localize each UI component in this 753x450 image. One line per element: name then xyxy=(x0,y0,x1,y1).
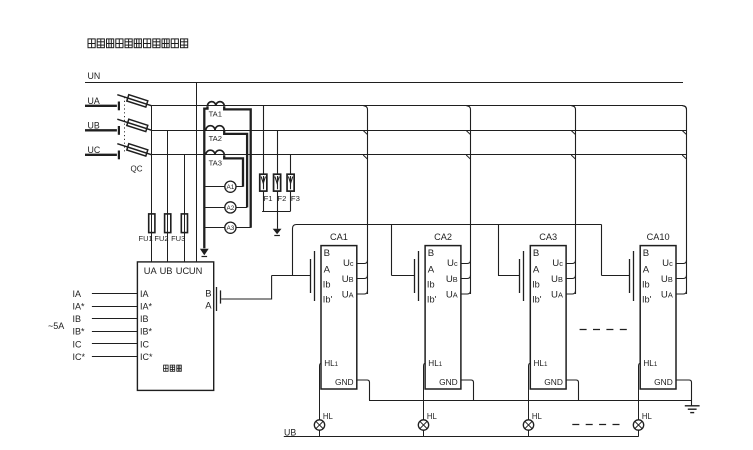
wire A2 left stub xyxy=(205,207,224,209)
lamp HL (CA3) xyxy=(523,420,533,430)
wire voltage drop vertical CA1 xyxy=(364,106,368,294)
wire current input IA* xyxy=(92,306,137,308)
wire CA10 B/A feed xyxy=(602,275,630,277)
svg-text:GND: GND xyxy=(654,377,673,387)
switch QC contact UB xyxy=(118,126,120,135)
wire TA2 secondary right xyxy=(224,131,247,208)
svg-text:UC: UC xyxy=(88,145,101,155)
svg-text:IC: IC xyxy=(140,339,150,349)
arrester F1 xyxy=(260,174,267,191)
svg-text:HL1: HL1 xyxy=(428,359,442,368)
ammeter A2 xyxy=(225,202,236,213)
svg-text:UB: UB xyxy=(446,274,458,285)
svg-text:Ib': Ib' xyxy=(323,295,333,305)
wire UA feed stub xyxy=(85,105,117,107)
junction tick UB x575 xyxy=(571,131,576,135)
svg-text:A: A xyxy=(533,264,540,275)
wire F1 bottom drop xyxy=(263,191,265,211)
junction tick UB x367 xyxy=(363,131,368,135)
svg-text:HL1: HL1 xyxy=(534,359,548,368)
svg-text:Ib': Ib' xyxy=(642,295,652,305)
wire CA10 UB hook xyxy=(676,275,687,278)
wire UA end fillet to right vertical xyxy=(683,106,687,110)
wire B/A daisy bus xyxy=(293,225,602,276)
junction tick UC x575 xyxy=(571,155,576,159)
svg-text:UA: UA xyxy=(88,96,100,106)
connector CA1 plug bars xyxy=(310,259,312,293)
svg-text:IB*: IB* xyxy=(140,327,153,337)
lamp HL (CA10) xyxy=(633,420,643,430)
wire TA1 secondary right xyxy=(224,106,251,228)
wire lamp to UB line (CA3) xyxy=(528,430,530,437)
CT TA2 winding humps xyxy=(206,126,224,131)
svg-text:A1: A1 xyxy=(226,184,234,191)
connector CA3 plug bars xyxy=(519,259,521,293)
svg-text:HL1: HL1 xyxy=(643,359,657,368)
module CA1 box xyxy=(321,246,357,389)
wire voltage drop vertical CA10 xyxy=(683,106,687,294)
svg-text:A: A xyxy=(643,264,650,275)
wire CA1 HL1 drop xyxy=(320,364,322,420)
svg-text:FU3: FU3 xyxy=(171,234,185,243)
svg-text:UA: UA xyxy=(661,289,673,300)
wire CA1 GND drop xyxy=(357,380,370,400)
svg-text:IB*: IB* xyxy=(73,327,86,337)
wire lamp to UB line (CA10) xyxy=(638,430,640,437)
svg-text:TA3: TA3 xyxy=(209,158,222,167)
module CA3 box xyxy=(530,246,566,389)
svg-text:FU2: FU2 xyxy=(154,234,168,243)
wire UB line xyxy=(152,130,687,132)
wire UB lamp line xyxy=(284,436,639,438)
svg-text:IA*: IA* xyxy=(73,302,86,312)
svg-text:B: B xyxy=(428,248,434,259)
svg-text:IA: IA xyxy=(140,289,149,299)
svg-text:IC: IC xyxy=(73,339,83,349)
svg-text:QC: QC xyxy=(131,165,143,174)
fuse body on QC blade UB xyxy=(127,119,148,131)
wire CA2 HL1 drop xyxy=(424,364,426,420)
arrow TA common to UN terminal xyxy=(200,249,209,256)
svg-text:UN: UN xyxy=(88,71,101,81)
wire controller B/A to bus xyxy=(221,276,271,300)
svg-text:GND: GND xyxy=(544,377,563,387)
wire lamp to UB line (CA2) xyxy=(423,430,425,437)
wire F3 drop from phase xyxy=(290,155,292,174)
wire current input IB xyxy=(92,318,137,320)
svg-text:TA1: TA1 xyxy=(209,109,222,118)
svg-text:UN: UN xyxy=(189,266,202,276)
switch QC contact UA xyxy=(118,102,120,111)
wire CA3 B/A feed xyxy=(498,275,520,277)
svg-text:HL: HL xyxy=(323,412,334,421)
fuse FU3 xyxy=(181,214,187,233)
arrow F common to neutral xyxy=(273,229,282,235)
connector controller-side plug bars xyxy=(216,287,218,311)
wire CA3 Uc hook xyxy=(566,260,575,263)
svg-text:HL1: HL1 xyxy=(324,359,338,368)
svg-text:Uc: Uc xyxy=(662,258,673,269)
svg-text:A: A xyxy=(205,300,212,311)
svg-text:CA3: CA3 xyxy=(539,232,557,242)
ammeter A3 xyxy=(225,222,236,233)
wire F3 bottom drop xyxy=(290,191,292,211)
svg-text:UB: UB xyxy=(661,274,673,285)
svg-text:B: B xyxy=(533,248,539,259)
svg-text:CA10: CA10 xyxy=(647,232,670,242)
continuation dashes between CA3 and CA10 xyxy=(580,329,627,331)
wire CA1 UB hook xyxy=(357,275,368,278)
arrester F2 xyxy=(274,174,281,191)
svg-text:CA1: CA1 xyxy=(330,232,348,242)
switch QC contact UC xyxy=(118,151,120,160)
wire A1 left stub xyxy=(205,186,224,188)
wire CA1 B/A feed xyxy=(272,275,311,277)
junction tick UC x686 xyxy=(682,155,687,159)
wire bus drop CA2 xyxy=(391,225,393,276)
connector CA2 plug bars xyxy=(414,259,416,293)
svg-text:IA*: IA* xyxy=(140,302,153,312)
svg-text:A3: A3 xyxy=(226,225,234,232)
svg-text:CA2: CA2 xyxy=(434,232,452,242)
svg-text:Uc: Uc xyxy=(447,258,458,269)
lamp HL (CA1) xyxy=(314,420,324,430)
svg-text:UB: UB xyxy=(160,266,173,276)
wire A3 right stub xyxy=(236,227,251,229)
svg-text:A2: A2 xyxy=(226,205,234,212)
svg-text:F3: F3 xyxy=(291,194,300,203)
CT TA3 winding humps xyxy=(206,150,224,155)
wire UC line xyxy=(152,154,687,156)
svg-text:F1: F1 xyxy=(264,194,273,203)
svg-text:F2: F2 xyxy=(277,194,286,203)
switch QC blade UB xyxy=(117,119,152,130)
svg-text:IB: IB xyxy=(73,314,82,324)
wire current input IB* xyxy=(92,331,137,333)
svg-text:Uc: Uc xyxy=(343,258,354,269)
svg-text:FU1: FU1 xyxy=(139,234,153,243)
svg-text:UB: UB xyxy=(342,274,354,285)
svg-text:TA2: TA2 xyxy=(209,134,222,143)
svg-text:GND: GND xyxy=(439,377,458,387)
wire UB feed stub xyxy=(85,129,117,131)
svg-text:UA: UA xyxy=(446,289,458,300)
wire bus drop CA10 xyxy=(601,225,603,276)
wire UN drop to controller xyxy=(196,82,198,262)
svg-text:~5A: ~5A xyxy=(48,321,64,331)
svg-text:A: A xyxy=(428,264,435,275)
title 三相补偿应用电气接线图 xyxy=(88,39,95,48)
continuation dashes between lamps xyxy=(572,424,620,426)
wire ground stem xyxy=(691,400,693,405)
svg-text:A: A xyxy=(324,264,331,275)
svg-text:UB: UB xyxy=(551,274,563,285)
fuse FU1 xyxy=(149,214,155,233)
svg-text:HL: HL xyxy=(427,412,438,421)
svg-text:HL: HL xyxy=(532,412,543,421)
arrester F3 xyxy=(287,174,294,191)
connector CA10 plug bars xyxy=(629,259,631,293)
svg-text:IC*: IC* xyxy=(140,352,153,362)
junction tick UC x367 xyxy=(363,155,368,159)
wire current input IA xyxy=(92,293,137,295)
svg-text:GND: GND xyxy=(335,377,354,387)
wire F2 drop from phase xyxy=(277,130,279,174)
controller box 控制器 xyxy=(137,262,213,391)
wire CA3 UB hook xyxy=(566,275,575,278)
wire FU3 drop from phase xyxy=(184,155,186,262)
wire CA10 UA hook xyxy=(676,291,687,294)
wire F1 drop from phase xyxy=(263,106,265,174)
svg-text:Ib: Ib xyxy=(323,280,331,290)
switch QC blade UA xyxy=(117,95,152,106)
svg-text:IC*: IC* xyxy=(73,352,86,362)
wire GND bus xyxy=(369,400,691,402)
switch QC blade UC xyxy=(117,144,152,155)
wire CA1 Uc hook xyxy=(357,260,368,263)
wire CA2 UB hook xyxy=(461,275,471,278)
svg-text:Ib': Ib' xyxy=(532,295,542,305)
wire F common bar xyxy=(262,211,291,213)
svg-text:IB: IB xyxy=(140,314,149,324)
wire current input IC* xyxy=(92,356,137,358)
svg-text:Ib: Ib xyxy=(642,280,650,290)
wire FU2 drop from phase xyxy=(167,130,169,262)
junction tick UB x686 xyxy=(682,131,687,135)
wire A2 right stub xyxy=(236,207,247,209)
svg-text:HL: HL xyxy=(642,412,653,421)
svg-text:B: B xyxy=(643,248,649,259)
ammeter A1 xyxy=(225,181,236,192)
module CA2 box xyxy=(425,246,461,389)
wire CA10 Uc hook xyxy=(676,260,687,263)
svg-text:UA: UA xyxy=(342,289,354,300)
wire TA secondary common (left) xyxy=(204,106,207,248)
wire CA2 UA hook xyxy=(461,291,471,294)
wire A3 left stub xyxy=(205,227,224,229)
svg-text:UB: UB xyxy=(284,427,296,437)
junction tick UC x470 xyxy=(466,155,471,159)
wire UC feed stub xyxy=(85,154,117,156)
wire UA line xyxy=(152,105,683,107)
wire CA3 GND drop xyxy=(566,380,578,400)
wire F2 drop to arrow xyxy=(277,191,279,229)
wire CA3 HL1 drop xyxy=(529,364,531,420)
svg-text:Uc: Uc xyxy=(552,258,563,269)
svg-text:Ib: Ib xyxy=(427,280,435,290)
wire UN bus xyxy=(85,82,683,84)
svg-text:B: B xyxy=(205,288,211,299)
label 控制器 xyxy=(164,365,169,371)
svg-text:IA: IA xyxy=(73,289,82,299)
wire CA1 UA hook xyxy=(357,291,368,294)
wire CA10 GND drop xyxy=(676,380,692,400)
wire CA10 HL1 drop xyxy=(639,364,641,420)
wire CA3 UA hook xyxy=(566,291,575,294)
wire TA3 secondary right xyxy=(224,155,243,187)
wire current input IC xyxy=(92,343,137,345)
module CA10 box xyxy=(640,246,676,389)
wire bus drop CA3 xyxy=(498,225,500,276)
CT TA1 winding humps xyxy=(208,102,225,106)
svg-text:UB: UB xyxy=(88,121,100,131)
wire voltage drop vertical CA3 xyxy=(572,106,576,294)
wire voltage drop vertical CA2 xyxy=(467,106,471,294)
svg-text:UA: UA xyxy=(551,289,563,300)
fuse body on QC blade UC xyxy=(127,144,148,156)
svg-text:UA: UA xyxy=(144,266,158,276)
wire A1 right stub xyxy=(236,186,243,188)
svg-text:Ib: Ib xyxy=(532,280,540,290)
svg-text:UC: UC xyxy=(176,266,190,276)
svg-text:B: B xyxy=(324,248,330,259)
ground symbol xyxy=(685,405,700,407)
wire lamp to UB line (CA1) xyxy=(319,430,321,437)
junction tick UB x470 xyxy=(466,131,471,135)
fuse FU2 xyxy=(165,214,171,233)
wire FU1 drop from phase xyxy=(151,106,153,262)
wire CA2 Uc hook xyxy=(461,260,471,263)
fuse body on QC blade UA xyxy=(127,95,148,107)
wire CA2 B/A feed xyxy=(392,275,415,277)
switch QC linkage (dotted) xyxy=(124,97,126,152)
wire CA2 GND drop xyxy=(461,380,474,400)
svg-text:Ib': Ib' xyxy=(427,295,437,305)
lamp HL (CA2) xyxy=(418,420,428,430)
